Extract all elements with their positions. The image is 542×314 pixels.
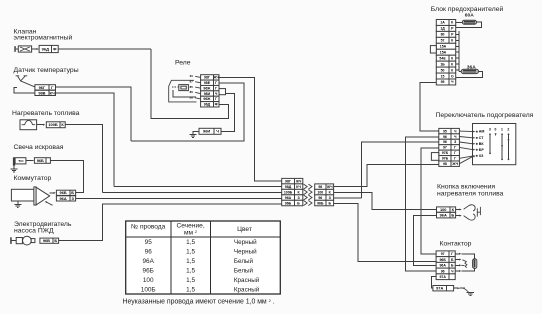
svg-text:1Б: 1Б bbox=[440, 62, 445, 66]
wire 97 vertical: heater switch row4 to contactor row1 bbox=[421, 148, 439, 254]
wire to label 96Б bbox=[26, 160, 34, 162]
svg-text:15А: 15А bbox=[440, 45, 447, 49]
svg-text:Б: Б bbox=[71, 190, 74, 195]
svg-text:Свеча искровая: Свеча искровая bbox=[14, 144, 64, 151]
svg-text:98Г: 98Г bbox=[204, 76, 210, 80]
svg-text:100: 100 bbox=[440, 207, 447, 212]
svg-text:1А: 1А bbox=[440, 21, 445, 25]
svg-text:ЖЧ: ЖЧ bbox=[212, 76, 219, 80]
svg-text:ХЗ: ХЗ bbox=[479, 154, 484, 158]
fuse block stack bbox=[436, 20, 455, 26]
svg-text:нагревателя топлива: нагревателя топлива bbox=[437, 191, 504, 198]
wire 98В: right then down to connector X1 row2 bbox=[56, 93, 115, 186]
wire relay 96Д loop to valve bbox=[151, 49, 229, 119]
wire 96Д to relay loop bbox=[58, 48, 151, 50]
svg-text:Реле: Реле bbox=[175, 60, 191, 67]
svg-text:1,5: 1,5 bbox=[186, 239, 195, 246]
arrows from stack to terminals bbox=[459, 130, 474, 133]
svg-text:Блок предохранителей: Блок предохранителей bbox=[431, 5, 504, 13]
svg-text:Датчик температуры: Датчик температуры bbox=[14, 67, 79, 74]
wire with arrow to label 96Д bbox=[32, 48, 38, 50]
relay contact arm to pin 30 bbox=[169, 80, 197, 102]
svg-text:3: 3 bbox=[489, 127, 491, 131]
svg-text:96: 96 bbox=[318, 196, 322, 200]
svg-text:97А: 97А bbox=[439, 275, 446, 279]
wire X2 row2 (100) to button bbox=[334, 193, 437, 210]
svg-text:100: 100 bbox=[317, 190, 323, 194]
wire 96 vertical: heater switch row2 to contactor row4 bbox=[405, 137, 438, 271]
svg-text:98Д: 98Д bbox=[285, 185, 292, 189]
column 0 mark bbox=[495, 133, 497, 136]
svg-text:85: 85 bbox=[190, 85, 194, 89]
relay contact group stack bbox=[201, 75, 219, 80]
wire label 97А (to ground) bbox=[433, 286, 454, 291]
svg-text:98Е: 98Е bbox=[204, 81, 211, 85]
connector pin of motor bbox=[10, 237, 12, 244]
wire label 96Г Г bbox=[35, 85, 56, 90]
commutator body bbox=[11, 189, 34, 201]
svg-text:100Б: 100Б bbox=[48, 122, 57, 127]
column 2 travel line bbox=[508, 134, 510, 159]
svg-text:96В: 96В bbox=[43, 238, 50, 243]
svg-text:100Б: 100Б bbox=[141, 287, 156, 294]
wire 96А to connector X1 row4 bbox=[76, 197, 282, 199]
svg-text:Цвет: Цвет bbox=[237, 226, 252, 233]
contactor coil bbox=[461, 254, 474, 259]
svg-text:Г: Г bbox=[454, 151, 456, 155]
svg-text:№ провода: № провода bbox=[131, 224, 166, 231]
svg-text:15: 15 bbox=[441, 74, 445, 78]
pump motor M symbol bbox=[16, 238, 22, 244]
wire 96Г: right then down then right to relay 98Е corner bbox=[56, 87, 131, 141]
hook from 97А row to 97А label bbox=[431, 277, 436, 289]
svg-text:2: 2 bbox=[507, 127, 509, 131]
svg-text:ЖЧ: ЖЧ bbox=[451, 162, 458, 166]
wire label 96И Ч bbox=[199, 128, 221, 134]
svg-text:95: 95 bbox=[443, 129, 447, 133]
svg-text:Черный: Черный bbox=[234, 247, 257, 255]
svg-text:96Б: 96Б bbox=[439, 258, 446, 262]
wire X2 row1 (98) to heater switch row7 bbox=[334, 164, 439, 186]
svg-text:Сечение,: Сечение, bbox=[177, 223, 205, 230]
arrow into triangle low side bbox=[46, 202, 53, 205]
svg-text:Белый: Белый bbox=[234, 257, 254, 265]
connector X2 stack bbox=[315, 184, 334, 189]
ground of 96И bbox=[193, 131, 199, 134]
svg-text:95: 95 bbox=[145, 239, 153, 246]
svg-text:АМ: АМ bbox=[479, 130, 485, 134]
svg-text:1: 1 bbox=[501, 127, 503, 131]
wire size table bbox=[126, 221, 281, 294]
wire into X1 row2 from temp sensor bbox=[114, 185, 282, 187]
contactor moving contact bbox=[462, 260, 467, 268]
svg-text:1,5: 1,5 bbox=[186, 248, 195, 255]
relay armature dashed link bbox=[172, 86, 179, 88]
relay coil bbox=[179, 85, 189, 91]
svg-text:СТ: СТ bbox=[479, 136, 485, 140]
svg-text:1,5: 1,5 bbox=[186, 267, 195, 274]
svg-text:Г: Г bbox=[215, 86, 217, 90]
svg-text:1Д: 1Д bbox=[440, 27, 445, 31]
arrows into button bbox=[456, 209, 461, 211]
svg-text:80: 80 bbox=[441, 33, 445, 37]
wire 36А return to row 15-О bbox=[456, 71, 483, 77]
svg-text:О: О bbox=[451, 74, 454, 78]
svg-text:Коммутатор: Коммутатор bbox=[14, 175, 52, 182]
fuel heater symbol bbox=[20, 120, 37, 130]
svg-text:Контактор: Контактор bbox=[440, 241, 472, 248]
svg-text:96Ж: 96Ж bbox=[203, 97, 211, 101]
bracket joining relay rows 3-4 bbox=[219, 89, 226, 95]
wire label 96Б (spark) bbox=[34, 158, 50, 164]
wire label 96В Б bbox=[40, 238, 59, 243]
svg-text:54Е: 54Е bbox=[439, 56, 446, 60]
button actuator bbox=[477, 207, 480, 217]
svg-text:15А: 15А bbox=[440, 51, 447, 55]
svg-text:96Ж: 96Ж bbox=[203, 86, 211, 90]
svg-text:Черный: Черный bbox=[234, 238, 257, 246]
wire X2 row3 (96) to heater switch row3 bbox=[334, 197, 362, 199]
svg-text:57: 57 bbox=[441, 39, 445, 43]
svg-text:Ч: Ч bbox=[216, 129, 219, 134]
svg-text:96А: 96А bbox=[285, 196, 292, 200]
svg-text:97А: 97А bbox=[436, 286, 443, 291]
bracket joining 15А rows bbox=[430, 46, 436, 53]
wire 96А vertical: button to contactor row3 bbox=[413, 216, 436, 266]
button wire label 100 К bbox=[437, 207, 456, 212]
commutator amplifier triangle bbox=[36, 187, 50, 205]
svg-text:1,5: 1,5 bbox=[186, 258, 195, 265]
svg-text:96Б: 96Б bbox=[143, 267, 154, 274]
svg-text:Б: Б bbox=[54, 238, 57, 243]
svg-text:0: 0 bbox=[494, 127, 496, 131]
arrows from contactor stack bbox=[455, 253, 460, 255]
svg-text:Г: Г bbox=[215, 97, 217, 101]
wire into X1 row3 from heater bbox=[102, 191, 281, 193]
svg-text:97: 97 bbox=[441, 252, 445, 256]
wire label 96А З bbox=[56, 196, 75, 201]
svg-text:96А: 96А bbox=[143, 258, 155, 265]
temperature sensor symbol bbox=[16, 76, 28, 81]
button symbol bbox=[464, 205, 476, 211]
svg-text:Г: Г bbox=[454, 146, 456, 150]
svg-text:96Б: 96Б bbox=[60, 190, 67, 195]
svg-text:ЖЧ: ЖЧ bbox=[326, 185, 333, 189]
wire 60А return to row2 bbox=[456, 22, 482, 27]
wire label 98В КЧ bbox=[35, 90, 56, 95]
heater switch connector stack bbox=[439, 128, 460, 133]
svg-text:100Б: 100Б bbox=[284, 190, 293, 194]
svg-text:Красный: Красный bbox=[234, 276, 260, 284]
svg-text:Нагреватель топлива: Нагреватель топлива bbox=[12, 110, 80, 117]
column 1 travel line bbox=[501, 134, 503, 159]
svg-text:60А: 60А bbox=[465, 13, 474, 19]
svg-text:ВК: ВК bbox=[479, 142, 485, 146]
svg-text:97Б: 97Б bbox=[442, 157, 449, 161]
spark plug symbol bbox=[13, 157, 15, 166]
svg-text:98: 98 bbox=[443, 162, 447, 166]
svg-text:КЧ: КЧ bbox=[50, 90, 55, 95]
svg-text:электромагнитный: электромагнитный bbox=[14, 34, 73, 42]
wire X2 row4 (96Б) to contactor row2 bbox=[334, 204, 437, 262]
svg-text:Белый: Белый bbox=[234, 266, 254, 274]
svg-text:100: 100 bbox=[143, 277, 154, 284]
svg-text:50: 50 bbox=[441, 68, 445, 72]
wire 95 from fuse block to heater switch row1 bbox=[420, 82, 439, 131]
svg-text:98Г: 98Г bbox=[285, 179, 291, 183]
svg-text:96: 96 bbox=[443, 135, 447, 139]
svg-text:96А: 96А bbox=[440, 213, 447, 218]
wire relay 98Г down to connector X1 row1 bbox=[219, 77, 282, 180]
svg-text:96Д: 96Д bbox=[42, 46, 49, 51]
svg-text:96И: 96И bbox=[203, 129, 210, 134]
wire and ground of 97А bbox=[454, 287, 459, 289]
svg-text:96Д: 96Д bbox=[204, 103, 211, 107]
wire 100Б: right then down then right to connector X1 row3 bbox=[65, 125, 102, 193]
column 3 travel line bbox=[489, 134, 491, 153]
svg-text:96Б: 96Б bbox=[37, 158, 44, 163]
wire 96В: right, up, right to connector X1 row5 bbox=[59, 204, 282, 241]
connector X1 stack bbox=[282, 178, 303, 183]
hook wire from sensor to 98В bbox=[14, 88, 35, 93]
fuse 36А element bbox=[459, 70, 461, 72]
contactor connector stack bbox=[436, 251, 455, 257]
wire label 100Б К bbox=[46, 122, 65, 128]
fuse block busbar bbox=[458, 31, 460, 71]
svg-text:Ф: Ф bbox=[215, 103, 218, 107]
bracket joining 97Б rows bbox=[431, 153, 438, 161]
svg-text:96А: 96А bbox=[60, 196, 67, 201]
svg-text:98: 98 bbox=[318, 185, 322, 189]
wire label 96Д Ф bbox=[39, 45, 58, 52]
wire with arrow to label 100Б bbox=[37, 124, 44, 126]
arrow to 96Б output bbox=[50, 192, 55, 194]
svg-text:95: 95 bbox=[441, 80, 445, 84]
svg-text:98В: 98В bbox=[38, 90, 45, 95]
svg-text:86: 86 bbox=[190, 90, 194, 94]
svg-text:96: 96 bbox=[443, 140, 447, 144]
svg-text:Неуказанные провода имеют сече: Неуказанные провода имеют сечение 1,0 мм… bbox=[123, 298, 275, 306]
svg-text:ЖЧ: ЖЧ bbox=[295, 179, 302, 183]
svg-text:96: 96 bbox=[441, 269, 445, 273]
svg-text:Переключатель подогревателя: Переключатель подогревателя bbox=[436, 112, 534, 119]
svg-text:1,5: 1,5 bbox=[186, 277, 195, 284]
button wire label 96А Б bbox=[437, 212, 456, 218]
connector chevrons X1-X2 bbox=[304, 184, 308, 189]
svg-text:98И: 98И bbox=[204, 92, 211, 96]
svg-text:97Б: 97Б bbox=[442, 151, 449, 155]
svg-text:96: 96 bbox=[145, 248, 153, 255]
svg-text:96Г: 96Г bbox=[39, 85, 46, 90]
valve Y1 symbol bbox=[18, 46, 31, 52]
svg-text:Б: Б bbox=[451, 213, 454, 218]
svg-text:КЧ: КЧ bbox=[296, 185, 301, 189]
wire label 96Б (commutator) bbox=[56, 190, 75, 195]
svg-text:Кнопка включения: Кнопка включения bbox=[437, 184, 495, 191]
fuse 60А element bbox=[456, 22, 463, 24]
svg-text:97: 97 bbox=[443, 146, 447, 150]
svg-text:БР: БР bbox=[479, 148, 485, 152]
svg-text:Г: Г bbox=[454, 157, 456, 161]
svg-text:Г: Г bbox=[215, 81, 217, 85]
svg-text:96Б: 96Б bbox=[285, 201, 292, 205]
connector pin of valve bbox=[14, 46, 16, 52]
svg-text:Г: Г bbox=[451, 252, 453, 256]
svg-text:30: 30 bbox=[190, 74, 194, 78]
heater switch terminals АМ СТ ВК БР ХЗ bbox=[476, 131, 478, 133]
svg-text:96А: 96А bbox=[439, 264, 446, 268]
wire relay 98И to 96И bbox=[221, 93, 235, 131]
svg-text:насоса ПЖД: насоса ПЖД bbox=[14, 228, 54, 235]
commutator ground bbox=[17, 201, 19, 205]
svg-text:96Б: 96Б bbox=[317, 201, 324, 205]
svg-text:Красный: Красный bbox=[234, 286, 260, 294]
relay coil tap wire bbox=[173, 90, 196, 97]
svg-text:1,5: 1,5 bbox=[186, 287, 195, 294]
spark plug ground bbox=[13, 166, 15, 169]
heater switch body bbox=[473, 124, 516, 165]
svg-text:Ф: Ф bbox=[53, 46, 57, 51]
relay pin stubs and pin numbers bbox=[195, 76, 200, 77]
wire 96Б spark to commutator bbox=[50, 161, 83, 193]
wire relay 98Е to 96Г loop bbox=[131, 83, 244, 141]
